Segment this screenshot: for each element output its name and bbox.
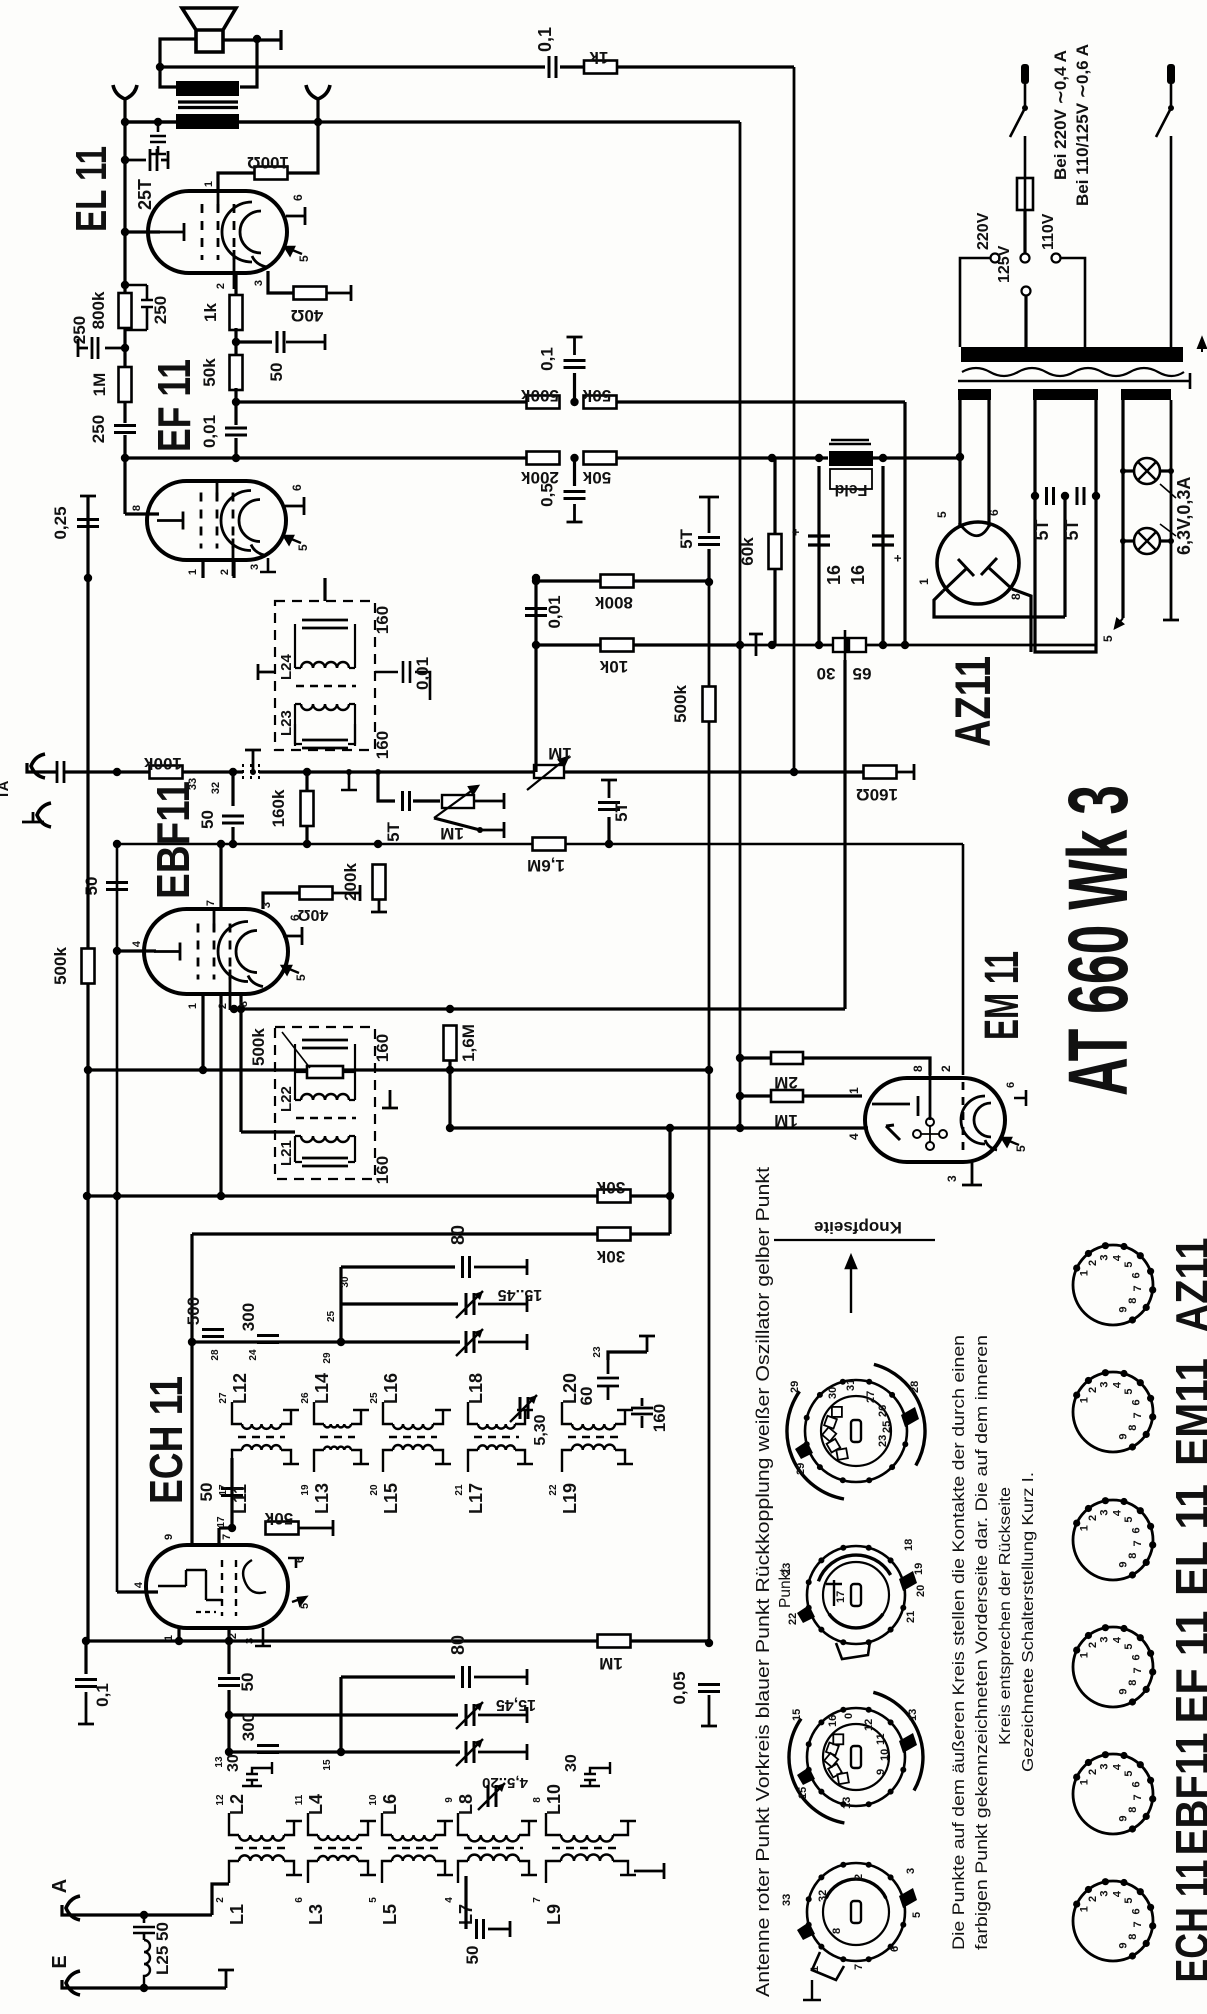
trimmer 5,30 <box>520 1397 528 1419</box>
svg-text:250: 250 <box>70 316 89 344</box>
wire lamp1 right <box>1160 469 1171 472</box>
svg-text:110V: 110V <box>1040 213 1057 250</box>
resistor 500k row1 <box>527 396 560 409</box>
wire rail 402-423 <box>123 402 126 423</box>
svg-text:15..45: 15..45 <box>498 1286 543 1303</box>
svg-text:20: 20 <box>369 1484 380 1496</box>
svg-text:250: 250 <box>89 415 108 443</box>
connector hook A <box>66 1896 80 1920</box>
resistor 10k <box>601 639 634 652</box>
svg-text:L2: L2 <box>227 1794 247 1815</box>
arrow fil left <box>1115 618 1123 628</box>
svg-text:5: 5 <box>299 1603 311 1609</box>
wire 80 row <box>341 1265 455 1268</box>
svg-text:Bei 110/125V ∼0,6 A: Bei 110/125V ∼0,6 A <box>1073 44 1092 206</box>
resistor 50k <box>230 355 243 390</box>
svg-text:4: 4 <box>1112 1509 1124 1516</box>
wire ECH pin7 <box>217 1528 220 1545</box>
wire B+ bus 645 <box>740 644 1096 647</box>
svg-text:3: 3 <box>261 902 273 908</box>
resistor 40R EBF <box>300 887 333 900</box>
terminal 5T row844 <box>601 780 617 798</box>
wire EBF pin7 <box>219 844 222 909</box>
IF coil pair L17/L18 <box>478 1424 515 1429</box>
tube ECH11 <box>146 1545 288 1628</box>
junction 236-342 <box>232 338 240 346</box>
speaker <box>182 8 236 52</box>
wire grid bus 1641 <box>86 1639 709 1642</box>
wire 536 down <box>534 578 537 772</box>
svg-text:28: 28 <box>909 1381 921 1393</box>
capacitor 0,25 <box>77 520 99 527</box>
junction 341-1752 <box>337 1748 345 1756</box>
pin 6 EL11 <box>286 207 305 225</box>
wire elco2 <box>881 466 884 645</box>
wire osc sub up <box>339 1267 342 1342</box>
wire 192 down <box>190 1234 193 1545</box>
capacitor 160 L20 <box>631 1398 653 1428</box>
secondary winding rect bar <box>1033 389 1098 400</box>
junction 709-1070 <box>705 1066 713 1074</box>
svg-text:9: 9 <box>444 1797 455 1803</box>
terminal 40R EBF <box>332 885 360 901</box>
svg-text:50k: 50k <box>264 1509 293 1528</box>
wire 15,45 row b <box>341 1713 458 1716</box>
svg-text:EL 11: EL 11 <box>1166 1484 1207 1596</box>
capacitor 50 bottom <box>218 1679 240 1686</box>
wire rail86 lower2 <box>86 1070 89 1641</box>
svg-text:60: 60 <box>577 1387 596 1406</box>
junction 233-772 <box>229 768 237 776</box>
svg-text:7: 7 <box>1132 1667 1144 1673</box>
svg-text:L13: L13 <box>312 1483 332 1514</box>
coil L22 <box>295 1044 355 1100</box>
terminal E <box>218 1970 234 1988</box>
svg-text:1: 1 <box>1079 1270 1091 1276</box>
svg-text:15,45: 15,45 <box>496 1696 536 1713</box>
wire sub row <box>378 772 395 801</box>
svg-text:4: 4 <box>131 940 143 947</box>
wire 1M left <box>740 1094 771 1097</box>
svg-text:5: 5 <box>1123 1516 1135 1522</box>
svg-text:100Ω: 100Ω <box>247 153 289 172</box>
svg-text:50: 50 <box>267 363 286 382</box>
svg-text:5: 5 <box>1123 1388 1135 1394</box>
wire 80 row b <box>341 1675 455 1678</box>
svg-text:EL 11: EL 11 <box>67 146 116 232</box>
wire EBF pin3 <box>263 893 300 909</box>
svg-text:9: 9 <box>163 1534 175 1540</box>
wire EF plate row <box>236 400 527 403</box>
wire rail86 upper <box>86 578 89 948</box>
svg-text:300: 300 <box>239 1303 258 1331</box>
junction 307-844 <box>303 840 311 848</box>
junction 819-458 <box>815 454 823 462</box>
svg-text:7: 7 <box>532 1897 543 1903</box>
wire 60 top <box>608 1352 647 1360</box>
pin 5 EM11 <box>1002 1138 1019 1146</box>
svg-text:1M: 1M <box>548 744 572 763</box>
svg-text:L4: L4 <box>306 1794 326 1815</box>
junction 1065-496 <box>1061 492 1069 500</box>
wire ECH pin4 <box>117 1590 158 1593</box>
arrow Knopfseite <box>846 1256 856 1313</box>
wire 50k down <box>234 388 237 425</box>
wire OT secondary left <box>125 120 176 123</box>
svg-text:3: 3 <box>905 1868 917 1874</box>
svg-text:25: 25 <box>881 1421 893 1433</box>
wire lamp2 right <box>1160 539 1171 542</box>
svg-text:Knopfseite: Knopfseite <box>814 1218 902 1237</box>
trimmer osc row <box>466 1331 474 1353</box>
wire rail117 <box>116 844 119 1592</box>
svg-text:0,05: 0,05 <box>670 1671 689 1704</box>
terminal 50 cap <box>286 334 325 350</box>
svg-text:1M: 1M <box>440 824 464 843</box>
wire HT right <box>987 400 990 527</box>
svg-text:50: 50 <box>198 810 217 829</box>
svg-text:5: 5 <box>1123 1897 1135 1903</box>
wire pin2 EF11 <box>232 560 235 578</box>
tube EL11 <box>148 191 287 273</box>
power transformer primary bar <box>961 347 1183 362</box>
capacitor 80 b <box>463 1666 470 1688</box>
svg-text:23: 23 <box>592 1346 603 1358</box>
svg-text:12: 12 <box>863 1719 875 1731</box>
wire b+ to winding <box>958 455 961 458</box>
svg-text:5: 5 <box>368 1897 379 1903</box>
svg-text:AT 660 Wk 3: AT 660 Wk 3 <box>1051 785 1145 1096</box>
svg-text:1M: 1M <box>90 373 109 397</box>
svg-text:23: 23 <box>877 1435 889 1447</box>
svg-text:8: 8 <box>1127 1807 1139 1813</box>
svg-text:50k: 50k <box>200 358 219 387</box>
pin 5 EBF11 <box>282 966 299 974</box>
wire AVC row 844 <box>117 843 963 846</box>
junction 740-1058 <box>736 1054 744 1062</box>
svg-text:500k: 500k <box>249 1028 268 1066</box>
junction 117-772 <box>113 768 121 776</box>
rheostat 1M <box>442 795 474 808</box>
trimmer 15,45 c <box>466 1704 474 1726</box>
tap 125V <box>1022 287 1031 296</box>
inductor L25 <box>133 1915 155 1940</box>
svg-text:6: 6 <box>291 194 305 201</box>
svg-text:TA: TA <box>0 780 12 799</box>
junction 88-578 <box>84 574 92 582</box>
wire osc row 1342 <box>192 1340 460 1343</box>
rotary switch wafer antenne <box>807 1708 905 1806</box>
lamp 2 <box>1134 528 1160 554</box>
trimmer 4,5-20 <box>488 1785 496 1807</box>
svg-text:2: 2 <box>1087 1642 1099 1648</box>
wire row 1752 <box>229 1750 460 1753</box>
junction 709-582 <box>705 578 713 586</box>
terminal 200k <box>371 899 387 912</box>
terminal fil right <box>1163 400 1179 620</box>
svg-text:21: 21 <box>454 1484 465 1496</box>
RF coil pair L1/L2 <box>239 1835 284 1841</box>
svg-text:12: 12 <box>215 1794 226 1806</box>
junction heater 5T-2 <box>1092 492 1100 500</box>
wire 772 run2 <box>564 770 864 773</box>
IF coil pair L11/L12 <box>242 1424 281 1429</box>
terminal row 1752 <box>478 1744 527 1760</box>
wire speaker loop <box>160 39 196 87</box>
svg-text:27: 27 <box>865 1391 877 1403</box>
junction 883-458 <box>879 454 887 462</box>
RF coil pair L3/L4 <box>318 1835 358 1840</box>
svg-text:2: 2 <box>1087 1260 1099 1266</box>
junction 450-1009 <box>446 1005 454 1013</box>
svg-text:8: 8 <box>532 1797 543 1803</box>
svg-text:65: 65 <box>853 664 872 683</box>
connector hook TA1 <box>31 754 45 778</box>
resistor 500k V1 <box>703 687 716 722</box>
junction 192-1342 <box>188 1338 196 1346</box>
terminal 1M right <box>474 793 504 809</box>
svg-text:L16: L16 <box>381 1373 401 1404</box>
wire 844 corner down <box>962 844 965 1075</box>
wire long vertical V3 <box>793 67 796 772</box>
wire EM row 1130 <box>450 1126 868 1129</box>
junction L25 bottom <box>140 1984 148 1992</box>
terminal bar <box>268 30 281 50</box>
svg-text:6: 6 <box>1130 1399 1142 1405</box>
junction lamp <box>1120 538 1126 544</box>
wire pin8 to L21 <box>241 1130 295 1133</box>
svg-text:30k: 30k <box>596 1247 625 1266</box>
wire loop right <box>240 39 257 87</box>
svg-text:3: 3 <box>249 564 261 570</box>
svg-text:33: 33 <box>781 1894 793 1906</box>
wire 30k row2 <box>192 1232 597 1235</box>
junction 179-1641 <box>175 1637 183 1645</box>
svg-text:220V: 220V <box>975 212 992 250</box>
RF coil pair L9/L10 <box>561 1835 613 1842</box>
pin 6 ECH11 <box>288 1558 304 1568</box>
junction loop right <box>253 35 261 43</box>
tap 220V <box>991 254 1000 263</box>
capacitor 5T row844 <box>598 803 620 810</box>
wire AZ11 pin8 <box>1012 589 1031 652</box>
svg-text:farbigen Punkt gekennzeichnete: farbigen Punkt gekennzeichneten Vorderse… <box>972 1335 991 1950</box>
junction 772-645 <box>768 641 776 649</box>
svg-text:6: 6 <box>889 1946 901 1952</box>
svg-text:8: 8 <box>1127 1553 1139 1559</box>
svg-text:6: 6 <box>1130 1654 1142 1660</box>
power transformer screen line <box>958 373 1190 389</box>
wire 30k b right <box>631 1232 670 1235</box>
svg-text:2: 2 <box>853 1874 865 1880</box>
svg-text:5: 5 <box>1101 635 1115 642</box>
label 500k IF pointer <box>282 1032 310 1068</box>
wire 60k down <box>773 569 776 645</box>
output transformer core lines <box>178 102 238 108</box>
svg-text:5: 5 <box>911 1912 923 1918</box>
pin 3 EF11 <box>260 558 276 572</box>
resistor 500k rail <box>82 949 95 984</box>
wire pin1 EF11 <box>201 560 204 578</box>
svg-text:AZ11: AZ11 <box>945 656 1001 747</box>
wire heater mid <box>1063 496 1066 617</box>
wire 5T V1 down <box>707 549 710 582</box>
wire left rail upper <box>123 122 126 232</box>
wire 1M arm <box>434 818 480 830</box>
capacitor 16 elco1 <box>808 536 830 545</box>
contact dashes 772 <box>243 764 259 780</box>
svg-text:19: 19 <box>913 1563 925 1575</box>
svg-text:5: 5 <box>297 255 311 262</box>
wire row 1715 <box>229 1713 341 1716</box>
wire ECH pin2 down <box>227 1641 230 1674</box>
resistor 160k <box>301 791 314 826</box>
arrow mains plug <box>1198 338 1206 352</box>
svg-text:50: 50 <box>197 1483 216 1502</box>
wire TA1 <box>27 763 57 772</box>
label 6,3V <box>1160 484 1176 536</box>
capacitor 16 elco2 <box>872 536 894 545</box>
junction 229-1752 <box>225 1748 233 1756</box>
junction 378-844 <box>374 840 382 848</box>
svg-text:L12: L12 <box>230 1373 250 1404</box>
svg-text:3: 3 <box>1099 1381 1111 1387</box>
socket EF11 <box>1073 1627 1153 1707</box>
wire 50 to row <box>227 1690 230 1715</box>
junction 221-844 <box>217 840 225 848</box>
junction sw1 <box>1022 105 1028 111</box>
svg-text:1: 1 <box>187 1003 199 1009</box>
svg-text:EF 11: EF 11 <box>148 359 200 452</box>
svg-text:10: 10 <box>879 1749 891 1761</box>
svg-text:13: 13 <box>907 1709 919 1721</box>
terminal 5T V1 <box>699 497 719 533</box>
junction arm <box>477 827 483 833</box>
wire 0,1 bottom <box>84 1641 87 1674</box>
svg-text:22: 22 <box>548 1484 559 1496</box>
capacitor L21 tank <box>302 1158 348 1166</box>
wire 60k up <box>773 458 776 534</box>
svg-text:L19: L19 <box>560 1483 580 1514</box>
capacitor L23 tank <box>302 740 348 748</box>
output transformer secondary bar <box>176 114 239 129</box>
wire V2 lower <box>739 645 742 1128</box>
svg-text:L24: L24 <box>278 653 295 680</box>
terminal box2 <box>382 1090 398 1108</box>
RF coil pair L7/L8 <box>468 1835 519 1841</box>
potentiometer 1M row772 <box>534 765 564 778</box>
svg-text:800k: 800k <box>89 291 108 329</box>
rotary switch wafer oszillator unten <box>807 1863 905 1961</box>
capacitor 5T heater1 <box>1047 487 1054 505</box>
svg-text:L18: L18 <box>466 1373 486 1404</box>
tap circle mid <box>1021 254 1030 263</box>
junction 125-458 <box>121 454 129 462</box>
wire 50 osc up <box>230 1458 233 1528</box>
wire 100R to bus <box>287 122 318 173</box>
terminal 60 <box>639 1336 655 1352</box>
svg-text:4: 4 <box>1112 1890 1124 1897</box>
capacitor 80 <box>463 1256 470 1278</box>
svg-text:2: 2 <box>1087 1387 1099 1393</box>
svg-text:2: 2 <box>1087 1769 1099 1775</box>
svg-text:3: 3 <box>1099 1254 1111 1260</box>
resistor 1k <box>584 61 617 74</box>
wire speaker top to terminal <box>223 38 268 41</box>
svg-text:8: 8 <box>1127 1425 1139 1431</box>
resistor 65-30 tapped <box>833 638 847 652</box>
wire lamp1 left <box>1123 469 1134 472</box>
wire 2M right <box>803 1058 930 1075</box>
svg-text:18: 18 <box>903 1539 915 1551</box>
wire 30k row1 <box>86 1194 597 1197</box>
svg-text:L15: L15 <box>381 1483 401 1514</box>
svg-text:160: 160 <box>650 1404 669 1432</box>
wire AVC bus 1070 <box>88 1068 709 1071</box>
svg-text:29: 29 <box>789 1381 801 1393</box>
junction 241-1009 <box>237 1005 245 1013</box>
resistor 50k osc <box>266 1522 299 1535</box>
capacitor 0,5 row2 <box>564 492 586 499</box>
IF coil pair L15/L16 <box>393 1424 433 1429</box>
capacitor 50 rail117 <box>106 883 128 890</box>
wire 1k-50k <box>234 328 237 357</box>
svg-text:15: 15 <box>797 1787 809 1799</box>
capacitor antenna <box>57 761 64 783</box>
svg-text:160: 160 <box>373 731 392 759</box>
svg-text:25: 25 <box>326 1310 337 1322</box>
contact T 772 <box>341 772 357 790</box>
wire 1,6M to bus <box>448 1061 451 1127</box>
svg-text:3: 3 <box>1099 1509 1111 1515</box>
junction 233-844 <box>229 840 237 848</box>
junction 203-1070 <box>199 1066 207 1074</box>
junction 794-772 <box>790 768 798 776</box>
svg-text:500k: 500k <box>51 947 70 985</box>
svg-text:15: 15 <box>791 1709 803 1721</box>
wire diode row 1009 <box>234 1007 845 1010</box>
svg-text:9: 9 <box>1118 1433 1130 1439</box>
svg-text:200k: 200k <box>341 863 360 901</box>
resistor 40R <box>294 287 327 300</box>
wire fil left <box>1121 400 1124 618</box>
capacitor 25T <box>125 149 168 171</box>
wire corner down x905 <box>903 402 906 645</box>
RF coil pair L5/L6 <box>392 1835 435 1840</box>
capacitor 0,01 box lead <box>375 661 430 700</box>
svg-text:4: 4 <box>1112 1636 1124 1643</box>
socket EL11 <box>1073 1500 1153 1580</box>
svg-text:30k: 30k <box>596 1178 625 1197</box>
terminal L9 <box>634 1863 664 1879</box>
resistor 50k row2 <box>584 452 617 465</box>
terminal bus 645 <box>749 634 763 656</box>
wire 0,25 rail <box>86 496 89 578</box>
pin 5 EF11 <box>284 536 301 544</box>
junction rail-348 <box>121 344 129 352</box>
svg-text:6: 6 <box>987 509 1001 516</box>
terminal 0,5 <box>567 504 583 522</box>
svg-text:L21: L21 <box>278 1140 295 1166</box>
IF transformer box L23 L24 <box>275 601 375 750</box>
resistor 1M <box>119 367 132 402</box>
svg-text:2: 2 <box>1087 1896 1099 1902</box>
terminal 50 L7 <box>488 1921 510 1937</box>
svg-text:5T: 5T <box>612 801 631 821</box>
svg-text:2: 2 <box>219 569 231 575</box>
junction 536-645 <box>532 641 540 649</box>
pin 6 EBF11 <box>283 927 302 945</box>
